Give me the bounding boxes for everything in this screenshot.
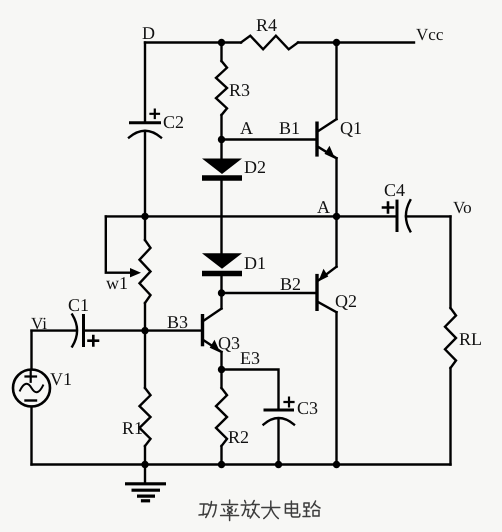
- capacitor C2: [129, 110, 161, 138]
- transistor Q3: [203, 309, 222, 353]
- wire D2 to D1: [220, 181, 222, 254]
- svg-text:w1: w1: [106, 273, 128, 293]
- svg-text:A: A: [317, 197, 330, 217]
- wire V1 top: [30, 331, 32, 370]
- resistor R4: [241, 36, 298, 50]
- svg-text:V1: V1: [50, 369, 72, 389]
- potentiometer w1: [140, 240, 151, 303]
- svg-text:C1: C1: [68, 295, 89, 315]
- junction B3: [141, 327, 148, 334]
- wire B2 row: [222, 292, 316, 294]
- svg-text:Vo: Vo: [453, 198, 472, 217]
- wire R4 to Vcc: [298, 41, 414, 43]
- wire R3 to node A upper: [220, 115, 222, 140]
- wire Q3 emitter to E3 junction: [220, 352, 222, 370]
- svg-text:Q1: Q1: [340, 118, 362, 138]
- svg-text:B1: B1: [279, 118, 300, 138]
- svg-text:D2: D2: [244, 157, 266, 177]
- wire R1 top stub: [144, 331, 146, 388]
- wire node A to B1 (Q1 base): [222, 138, 316, 140]
- wire bottom rail: [32, 463, 451, 465]
- wire pot top stub: [144, 216, 146, 240]
- junction C2 w1 A-row: [141, 213, 148, 220]
- junction bottom Q2: [333, 461, 340, 468]
- junction E3: [218, 366, 225, 373]
- wire B3 to Q3 base: [145, 329, 201, 331]
- wire Q1 emitter to node A output: [335, 158, 337, 216]
- resistor R2: [216, 388, 227, 446]
- wire Vo down to RL: [449, 216, 451, 308]
- svg-text:RL: RL: [459, 329, 482, 349]
- svg-text:C2: C2: [163, 112, 184, 132]
- svg-text:R4: R4: [256, 15, 277, 35]
- wire R1 to bottom rail: [144, 446, 146, 465]
- svg-text:Vcc: Vcc: [416, 25, 444, 44]
- svg-text:C3: C3: [297, 398, 318, 418]
- diode D1: [202, 253, 242, 273]
- wire Q3 collector up to B2 junction: [220, 293, 222, 309]
- wire E3 down to R2: [220, 370, 222, 389]
- ground: [125, 465, 166, 501]
- transistor Q1: [317, 119, 337, 159]
- capacitor C1: [72, 314, 98, 347]
- svg-text:B3: B3: [167, 312, 188, 332]
- resistor RL: [445, 308, 456, 368]
- wire A-row horizontal: [106, 215, 337, 217]
- svg-text:R1: R1: [122, 418, 143, 438]
- junction bottom R2: [218, 461, 225, 468]
- capacitor C3: [264, 398, 295, 425]
- caption 功率放大电路: [199, 500, 320, 521]
- wire node A upper to D2: [220, 140, 222, 159]
- wire D1 to B2 junction: [220, 276, 222, 293]
- svg-text:A: A: [240, 118, 253, 138]
- wire Vi input: [32, 329, 77, 331]
- wire E3 row to C3: [222, 370, 279, 411]
- junction bottom R1 ground: [141, 461, 148, 468]
- svg-text:B2: B2: [280, 274, 301, 294]
- svg-text:E3: E3: [240, 348, 260, 368]
- w1 wiper arrowhead: [130, 268, 141, 277]
- wire C1 to B3 junction: [84, 329, 146, 331]
- junction top rail Q1 collector: [333, 39, 340, 46]
- wire node A to Q2 emitter: [335, 216, 337, 266]
- source V1: [13, 370, 50, 407]
- junction top rail R3: [218, 39, 225, 46]
- wire V1 bottom: [30, 407, 32, 465]
- svg-text:Q3: Q3: [218, 333, 240, 353]
- diode D2: [202, 159, 242, 179]
- wire C3 to bottom rail: [277, 419, 279, 465]
- svg-text:D1: D1: [244, 253, 266, 273]
- wire top rail D to Vcc: [145, 41, 241, 43]
- transistor Q2: [317, 267, 337, 313]
- node A output junction: [333, 213, 340, 220]
- wire R2 to bottom rail: [220, 446, 222, 465]
- wire w1 wiper: [106, 216, 133, 272]
- wire C2 to A-row junction: [144, 131, 146, 216]
- wire Q2 collector to bottom rail: [335, 312, 337, 464]
- capacitor C4: [383, 200, 410, 232]
- svg-text:R3: R3: [229, 80, 250, 100]
- wire R3 top stub: [220, 43, 222, 62]
- wire Q1 collector to top rail: [335, 43, 337, 120]
- wire pot to B3 junction: [144, 303, 146, 331]
- svg-text:C4: C4: [384, 180, 405, 200]
- node A upper junction: [218, 136, 225, 143]
- svg-text:Q2: Q2: [335, 291, 357, 311]
- junction bottom C3: [275, 461, 282, 468]
- resistor R3: [216, 61, 227, 115]
- wire C4 to Vo corner: [406, 215, 451, 217]
- svg-text:Vi: Vi: [31, 314, 47, 333]
- wire RL to bottom rail: [449, 368, 451, 465]
- svg-text:R2: R2: [228, 427, 249, 447]
- wire node A to C4: [337, 215, 398, 217]
- resistor R1: [140, 388, 151, 446]
- svg-text:D: D: [142, 23, 155, 43]
- junction D1 B2: [218, 289, 225, 296]
- wire D vertical down to C2: [144, 43, 146, 123]
